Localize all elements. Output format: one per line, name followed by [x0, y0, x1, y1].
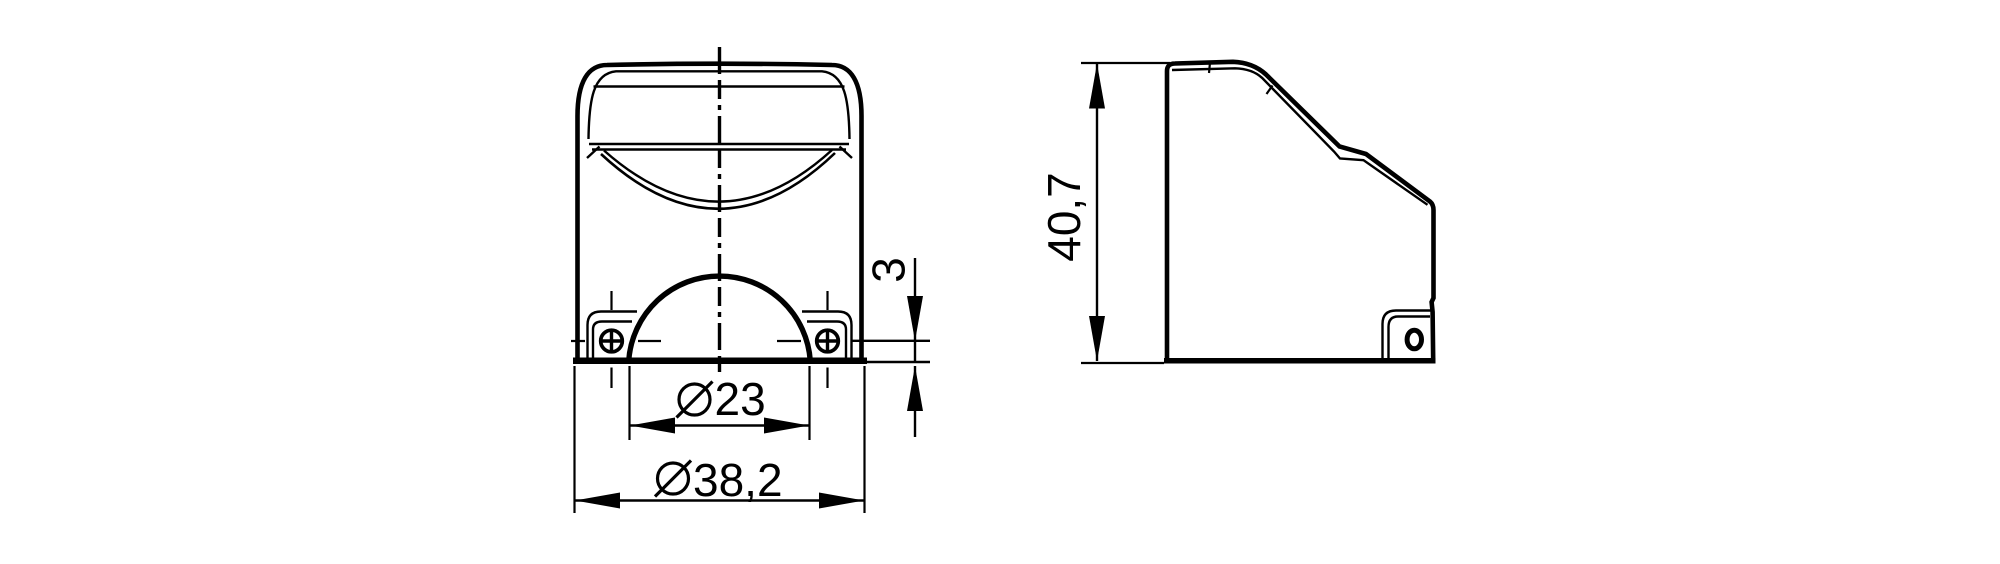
svg-text:23: 23: [715, 373, 766, 425]
svg-text:40,7: 40,7: [1038, 172, 1090, 262]
svg-text:3: 3: [863, 257, 915, 283]
svg-text:38,2: 38,2: [693, 454, 783, 506]
